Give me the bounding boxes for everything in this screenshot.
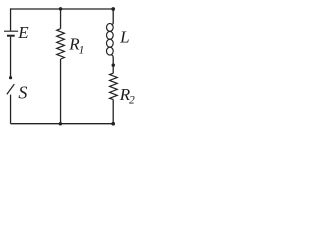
node bottom R1 junction	[59, 122, 63, 126]
wire bottom	[11, 123, 114, 125]
svg-text:S: S	[18, 83, 27, 103]
resistor R1	[57, 29, 65, 59]
node top right corner	[111, 7, 115, 11]
svg-text:E: E	[17, 23, 29, 42]
node between L and R2	[112, 63, 116, 67]
svg-text:2: 2	[129, 95, 135, 107]
svg-text:L: L	[119, 27, 129, 46]
wire left-top (corner to battery)	[10, 8, 12, 30]
label E	[17, 23, 29, 42]
resistor R2	[110, 73, 118, 99]
wire R1 top stub	[60, 9, 62, 29]
switch S blade	[7, 84, 15, 94]
wire top	[11, 8, 114, 10]
svg-text:1: 1	[79, 44, 85, 56]
label L	[119, 27, 129, 46]
wire L to node	[112, 57, 114, 65]
node switch upper contact	[9, 76, 12, 79]
wire node to R2	[112, 65, 114, 73]
wire left-bottom (switch to corner)	[10, 95, 12, 124]
label R2	[119, 85, 135, 107]
node bottom right corner	[111, 122, 115, 126]
label R1	[68, 35, 84, 57]
wire R1 bottom stub	[60, 59, 62, 124]
wire left-mid (battery to switch)	[10, 37, 12, 78]
wire right top stub	[112, 9, 114, 23]
battery E	[4, 31, 18, 36]
node top R1 junction	[59, 7, 63, 11]
wire R2 bottom stub	[112, 100, 114, 124]
label S	[18, 83, 27, 103]
inductor L	[107, 23, 114, 58]
